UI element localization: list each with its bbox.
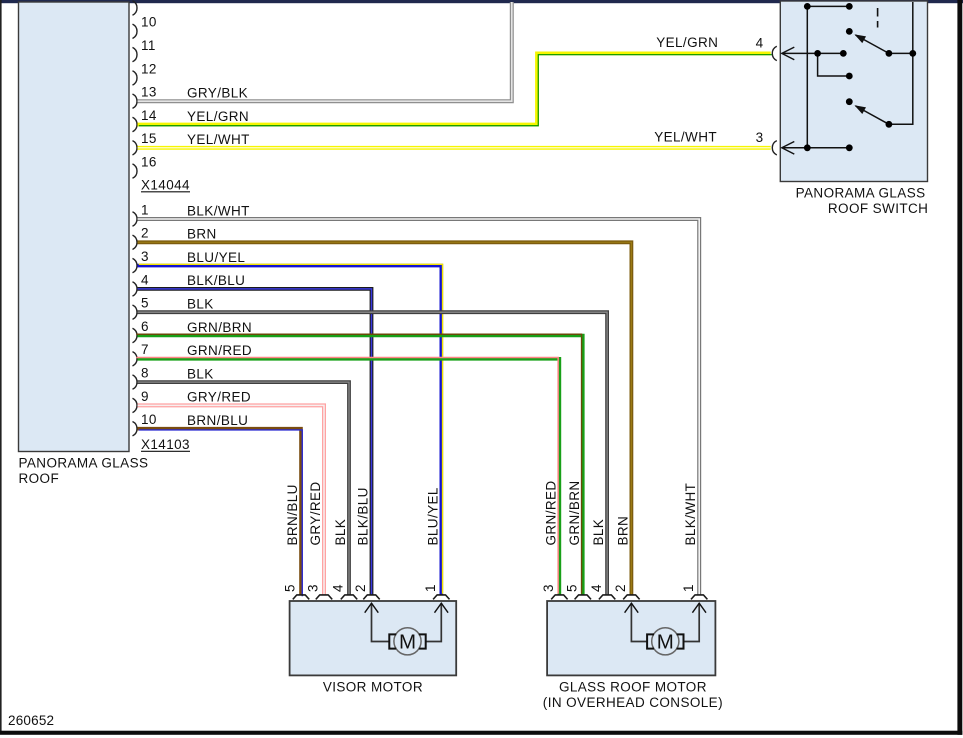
wire BLK from X14103 pin 5 to glass roof motor pin 4 [138, 297, 608, 596]
switch contact dot E [814, 50, 821, 57]
switch top jumper wire A-B [807, 5, 849, 7]
svg-text:1: 1 [681, 584, 696, 592]
wire GRN/RED from X14103 pin 7 to glass roof motor pin 3 [136, 343, 559, 595]
panorama glass roof switch box [780, 1, 927, 182]
switch pin 4 row wire [782, 52, 844, 54]
connector X14044 pin 14 [133, 108, 157, 132]
glass roof motor caption [543, 680, 723, 711]
svg-text:YEL/GRN: YEL/GRN [656, 35, 718, 50]
connector X14103 pin 6 [133, 319, 149, 343]
wire BRN from X14103 pin 2 to glass roof motor pin 2 [138, 227, 632, 595]
svg-text:BLK/WHT: BLK/WHT [187, 203, 250, 218]
panorama glass roof module box [19, 2, 130, 452]
connector X14044 pin 10 [133, 15, 157, 39]
svg-text:GRN/RED: GRN/RED [543, 480, 558, 545]
wire GRY/RED from X14103 pin 9 to visor motor pin 3 [138, 390, 325, 595]
switch contact dot F [840, 50, 847, 57]
switch contact dot L [846, 144, 853, 151]
svg-text:X14103: X14103 [141, 437, 190, 452]
svg-text:(IN OVERHEAD CONSOLE): (IN OVERHEAD CONSOLE) [543, 695, 723, 710]
glass roof motor box [547, 601, 715, 675]
svg-text:8: 8 [141, 366, 149, 381]
svg-text:GRN/RED: GRN/RED [187, 343, 252, 358]
glass roof motor pin 1 (BLK/WHT) [681, 483, 708, 600]
svg-text:1: 1 [141, 202, 149, 217]
connector X14044 pin 15 [133, 131, 157, 155]
switch L wire H to I [889, 2, 913, 124]
svg-text:BLK: BLK [333, 519, 348, 546]
switch contact dot D [886, 50, 893, 57]
page right border bar [957, 0, 962, 735]
svg-text:BLK/WHT: BLK/WHT [683, 483, 698, 546]
connector X14044 pin 12 [133, 61, 157, 85]
connector X14103 pin 3 [133, 249, 149, 273]
switch contact dot I [886, 121, 893, 128]
switch lower arm with arrow [856, 106, 889, 124]
visor motor caption [323, 680, 423, 695]
switch contact dot G [846, 73, 853, 80]
svg-text:BRN: BRN [187, 227, 217, 242]
glass roof motor pin 2 (BRN) [613, 516, 640, 600]
switch contact dot K [804, 144, 811, 151]
svg-text:YEL/WHT: YEL/WHT [654, 129, 717, 144]
svg-text:BLK/BLU: BLK/BLU [356, 487, 371, 545]
svg-text:4: 4 [756, 35, 764, 50]
connector label X14044 [141, 177, 190, 192]
visor motor symbol M [389, 628, 425, 655]
svg-text:GRN/BRN: GRN/BRN [567, 480, 582, 545]
svg-text:YEL/WHT: YEL/WHT [187, 132, 250, 147]
page left border [0, 0, 2, 733]
svg-text:11: 11 [141, 38, 156, 53]
svg-text:GRN/BRN: GRN/BRN [187, 320, 252, 335]
svg-text:5: 5 [283, 584, 298, 592]
visor motor pin 5 (BRN/BLU) [283, 484, 310, 599]
switch upper arm with arrow [856, 35, 889, 53]
svg-text:10: 10 [141, 412, 157, 427]
glass roof motor pin 5 (GRN/BRN) [565, 480, 592, 599]
wire GRY/BLK from X14044 pin 13 [138, 2, 512, 101]
switch contact dot C [846, 28, 853, 35]
connector X14044 pin 13 [133, 85, 157, 109]
connector X14103 pin 10 [133, 412, 157, 436]
svg-text:10: 10 [141, 15, 157, 30]
svg-text:GRY/RED: GRY/RED [187, 390, 251, 405]
svg-text:ROOF: ROOF [19, 471, 60, 486]
wire BLU/YEL from X14103 pin 3 to visor motor pin 1 [138, 250, 443, 595]
page bottom border bar [0, 731, 962, 735]
svg-text:YEL/GRN: YEL/GRN [187, 109, 249, 124]
svg-text:BLK/BLU: BLK/BLU [187, 273, 245, 288]
svg-text:BLU/YEL: BLU/YEL [425, 487, 440, 545]
switch pin 4 arrow [782, 47, 795, 60]
svg-text:2: 2 [353, 584, 368, 592]
wire YEL/GRN from X14044 pin 14 to switch pin 4 [138, 53, 772, 125]
switch pin 3 arrow [782, 142, 795, 155]
switch L wire E to G [818, 53, 850, 76]
switch contact dot J [846, 98, 853, 105]
svg-text:4: 4 [141, 272, 149, 287]
connector X14044 pin 16 [133, 155, 157, 179]
svg-text:ROOF SWITCH: ROOF SWITCH [828, 201, 928, 216]
visor motor pin 1 (BLU/YEL) [423, 487, 450, 599]
connector label X14103 [141, 437, 190, 452]
glass roof motor internal arrow pin 2 [625, 603, 639, 613]
svg-text:3: 3 [756, 130, 764, 145]
wire BRN/BLU from X14103 pin 10 to visor motor pin 5 [138, 413, 303, 596]
switch contact dot B [846, 3, 853, 10]
svg-text:1: 1 [423, 584, 438, 592]
svg-text:7: 7 [141, 342, 149, 357]
switch contact dot A [804, 3, 811, 10]
visor motor internal arrow pin 2 [365, 603, 379, 613]
svg-text:3: 3 [541, 584, 556, 592]
switch dashed actuator line [877, 8, 879, 28]
connector X14044 pin 11 [133, 38, 156, 62]
svg-text:PANORAMA GLASS: PANORAMA GLASS [796, 185, 926, 200]
wire GRN/BRN from X14103 pin 6 to glass roof motor pin 5 [136, 320, 583, 595]
connector X14103 pin 7 [133, 342, 149, 366]
connector X14103 pin 1 [133, 202, 149, 226]
wire BLK/WHT from X14103 pin 1 to glass roof motor pin 1 [138, 203, 700, 595]
visor motor pin 4 (BLK) [331, 519, 358, 600]
visor motor pin 3 (GRY/RED) [306, 481, 333, 599]
svg-text:BRN/BLU: BRN/BLU [285, 484, 300, 545]
svg-text:BRN/BLU: BRN/BLU [187, 413, 248, 428]
svg-text:GRY/BLK: GRY/BLK [187, 86, 248, 101]
svg-text:BLK: BLK [591, 519, 606, 546]
visor motor internal arrow pin 1 [435, 603, 449, 613]
svg-text:BRN: BRN [615, 516, 630, 546]
connector X14103 pin 8 [133, 366, 149, 390]
glass roof motor internal arrow pin 1 [692, 603, 706, 613]
svg-text:12: 12 [141, 61, 157, 76]
switch caption PANORAMA GLASS ROOF SWITCH [796, 185, 929, 216]
svg-text:BLU/YEL: BLU/YEL [187, 250, 245, 265]
svg-text:260652: 260652 [8, 713, 54, 728]
visor motor box [290, 601, 457, 675]
switch contact dot H [909, 50, 916, 57]
svg-text:4: 4 [589, 584, 604, 592]
visor motor pin 2 (BLK/BLU) [353, 487, 380, 599]
visor motor internal wire pin 1 [426, 603, 441, 642]
svg-text:M: M [657, 631, 674, 654]
connector X14103 pin 4 [133, 272, 150, 296]
wire BLK from X14103 pin 8 to visor motor pin 4 [138, 366, 350, 595]
svg-text:BLK: BLK [187, 366, 214, 381]
glass roof motor pin 4 (BLK) [589, 519, 616, 600]
label PANORAMA GLASS ROOF [19, 456, 149, 487]
glass roof motor internal wire pin 1 [684, 603, 699, 642]
wire BLK/BLU from X14103 pin 4 to visor motor pin 2 [138, 273, 372, 595]
connector X14044 pin 9 (partial) [133, 1, 138, 15]
svg-text:GRY/RED: GRY/RED [308, 481, 323, 545]
glass roof motor internal wire pin 2 [631, 603, 646, 642]
svg-text:VISOR MOTOR: VISOR MOTOR [323, 680, 423, 695]
switch pin 4 bracket and label [656, 35, 777, 61]
svg-text:GLASS ROOF MOTOR: GLASS ROOF MOTOR [559, 680, 707, 695]
svg-text:3: 3 [141, 249, 149, 264]
connector X14103 pin 2 [133, 226, 149, 250]
page top border bar [0, 0, 963, 3]
svg-text:15: 15 [141, 131, 157, 146]
switch wire D-H [889, 52, 913, 54]
svg-text:13: 13 [141, 85, 157, 100]
glass roof motor symbol M [647, 628, 683, 655]
svg-text:2: 2 [613, 584, 628, 592]
svg-text:5: 5 [565, 584, 580, 592]
svg-text:4: 4 [331, 584, 346, 592]
wire YEL/WHT from X14044 pin 15 to switch pin 3 [138, 132, 771, 148]
svg-text:3: 3 [306, 584, 321, 592]
connector X14103 pin 5 [133, 296, 149, 320]
svg-text:PANORAMA GLASS: PANORAMA GLASS [19, 456, 149, 471]
switch vertical bus wire A-K [806, 6, 808, 147]
svg-text:9: 9 [141, 389, 149, 404]
diagram number 260652 [8, 713, 54, 728]
glass roof motor pin 3 (GRN/RED) [541, 480, 568, 599]
svg-text:6: 6 [141, 319, 149, 334]
switch pin 3 row wire [782, 147, 850, 149]
svg-text:BLK: BLK [187, 297, 214, 312]
svg-text:M: M [399, 631, 416, 654]
switch pin 3 bracket and label [654, 129, 777, 155]
svg-text:16: 16 [141, 155, 157, 170]
svg-text:2: 2 [141, 226, 149, 241]
svg-text:14: 14 [141, 108, 157, 123]
connector X14103 pin 9 [133, 389, 149, 413]
svg-text:5: 5 [141, 296, 149, 311]
svg-text:X14044: X14044 [141, 177, 190, 192]
visor motor internal wire pin 2 [372, 603, 389, 642]
